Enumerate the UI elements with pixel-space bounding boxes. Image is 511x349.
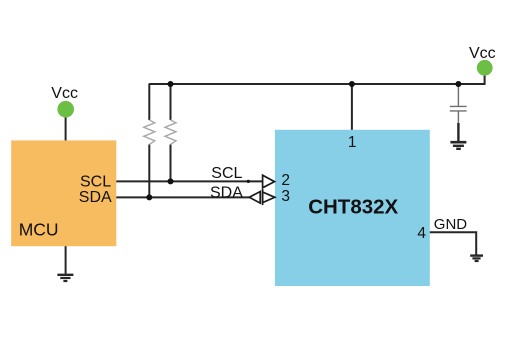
svg-text:4: 4	[417, 225, 426, 242]
svg-text:SDA: SDA	[210, 184, 243, 201]
svg-text:3: 3	[281, 188, 290, 205]
svg-text:MCU: MCU	[19, 220, 59, 240]
svg-text:SDA: SDA	[79, 189, 112, 206]
svg-text:2: 2	[281, 172, 290, 189]
svg-text:GND: GND	[434, 216, 468, 233]
svg-text:Vcc: Vcc	[469, 45, 496, 62]
svg-text:CHT832X: CHT832X	[308, 195, 398, 218]
svg-text:1: 1	[348, 134, 357, 151]
svg-text:Vcc: Vcc	[51, 85, 78, 102]
svg-text:SCL: SCL	[211, 165, 242, 182]
